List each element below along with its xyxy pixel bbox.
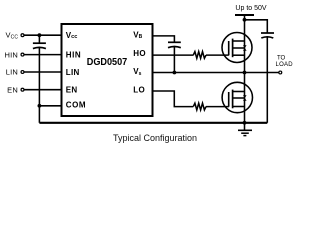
svg-text:COM: COM xyxy=(66,101,86,110)
wire supply bar down to junction xyxy=(244,15,246,20)
capacitor C1 bottom plate xyxy=(33,47,46,48)
op-amp U1 (gate driver IC DGD0507 body) xyxy=(62,24,153,116)
wire LIN terminal to LIN pin xyxy=(24,71,62,73)
transistor Q2 (low-side MOSFET) xyxy=(222,82,252,112)
capacitor C3 (50V decoupling) top plate xyxy=(261,32,274,34)
capacitor C2 (bootstrap) top plate xyxy=(168,41,181,43)
wire resistor R1 to Q1 gate xyxy=(206,54,229,56)
svg-text:LO: LO xyxy=(133,86,145,95)
wire C3 bottom lead down to ground bus xyxy=(266,37,268,123)
svg-text:Typical Configuration: Typical Configuration xyxy=(113,133,197,144)
capacitor C3 bottom plate xyxy=(261,37,273,38)
ground symbol xyxy=(244,123,246,130)
svg-text:LIN: LIN xyxy=(6,68,18,77)
junction VS / rail xyxy=(243,71,247,75)
svg-text:Up to 50V: Up to 50V xyxy=(235,5,266,12)
wire VB pin to bootstrap cap xyxy=(153,36,175,42)
wire VS pin to load terminal xyxy=(153,72,279,74)
supply rail bar xyxy=(235,14,254,16)
svg-text:LIN: LIN xyxy=(66,68,80,77)
wire COM pin to junction xyxy=(39,105,61,107)
wire ground bus xyxy=(39,122,267,124)
svg-text:EN: EN xyxy=(7,85,18,94)
capacitor C1 top plate xyxy=(33,42,46,44)
junction COM node xyxy=(38,104,42,108)
capacitor C2 bottom plate xyxy=(168,47,181,48)
wire HIN terminal to HIN pin xyxy=(24,54,62,56)
wire C2 bottom lead down to VS node xyxy=(173,47,175,73)
junction VCC/C1 xyxy=(38,33,42,37)
wire HO pin to gate resistor xyxy=(153,54,194,56)
svg-text:LOAD: LOAD xyxy=(276,62,294,68)
wire EN terminal to EN pin xyxy=(24,89,62,91)
capacitor C1 (VCC bypass) top lead xyxy=(38,35,40,42)
wire LO pin to gate resistor xyxy=(153,91,194,107)
node TO LOAD terminal xyxy=(279,71,282,74)
junction supply node xyxy=(243,18,247,22)
wire main drain rail down through FETs xyxy=(244,20,246,123)
transistor Q1 (high-side MOSFET) xyxy=(222,33,252,63)
svg-text:HO: HO xyxy=(133,49,146,58)
node HIN terminal xyxy=(21,53,24,56)
wire resistor R2 to Q2 gate xyxy=(206,106,229,108)
svg-text:EN: EN xyxy=(66,86,78,95)
svg-text:HIN: HIN xyxy=(66,51,81,60)
wire VCC terminal to Vcc pin xyxy=(24,34,62,36)
junction ground bus / FET source xyxy=(243,121,247,125)
node VCC terminal xyxy=(21,34,24,37)
svg-text:TO: TO xyxy=(277,56,286,62)
svg-text:DGD0507: DGD0507 xyxy=(87,57,128,68)
node EN terminal xyxy=(21,88,24,91)
resistor R1 (high-side gate) xyxy=(193,52,206,59)
resistor R2 (low-side gate) xyxy=(193,103,206,110)
wire supply junction to decoupling cap xyxy=(245,20,268,33)
svg-text:HIN: HIN xyxy=(4,50,18,59)
junction C2/VS xyxy=(173,71,177,75)
node LIN terminal xyxy=(21,71,24,74)
wire C1 bottom to COM junction and down to ground bus xyxy=(38,48,40,123)
